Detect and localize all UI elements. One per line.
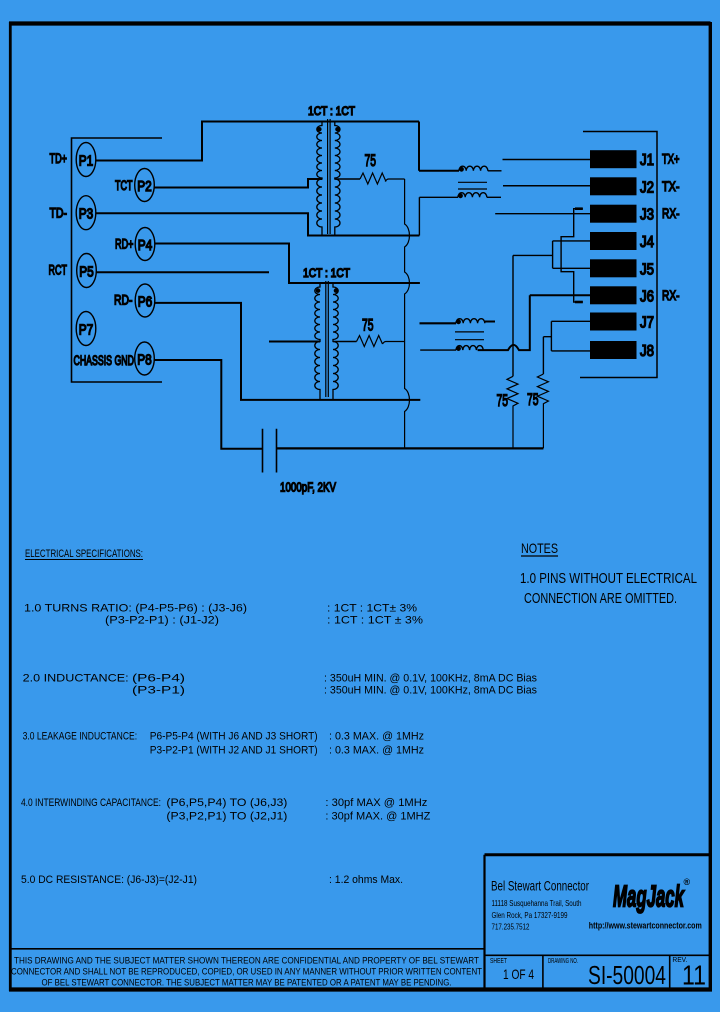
choke CH2 bottom winding (456, 346, 483, 351)
svg-text:J5: J5 (640, 261, 654, 278)
pin P8 (135, 342, 155, 375)
wire P5 (dangling at x=269) (96, 271, 269, 273)
svg-text:P6-P5-P4 (WITH J6 AND J3 SHORT: P6-P5-P4 (WITH J6 AND J3 SHORT) (150, 731, 318, 743)
svg-text:: 0.3 MAX. @ 1MHz: : 0.3 MAX. @ 1MHz (329, 745, 424, 757)
transformer T1 core (328, 119, 331, 234)
wire P4 to T2 top line (155, 244, 420, 284)
svg-text:J4: J4 (640, 234, 654, 251)
svg-text:717.235.7512: 717.235.7512 (492, 922, 530, 932)
svg-text:J6: J6 (640, 288, 654, 305)
svg-text:RX-: RX- (662, 287, 680, 303)
svg-text:OF BEL STEWART CONNECTOR. THE: OF BEL STEWART CONNECTOR. THE SUBJECT MA… (42, 978, 452, 989)
svg-text:P3: P3 (79, 206, 94, 223)
wire to J4 (553, 240, 590, 242)
svg-text:J7: J7 (640, 315, 654, 332)
choke CH1 core (458, 182, 487, 189)
svg-text:P2: P2 (137, 178, 152, 195)
svg-text:J1: J1 (640, 152, 654, 169)
wire R2 right to long vertical node (383, 342, 405, 345)
transformer T1 polarity dots (317, 127, 322, 132)
transformer T2 core (326, 281, 329, 397)
tie wire J7-J8 (550, 321, 552, 351)
svg-text:DRAWING NO.: DRAWING NO. (548, 956, 578, 965)
resistor R3 75 ohm (vertical) (507, 376, 518, 448)
wire P2 to T1 primary center tap (154, 179, 322, 188)
transformer T1 secondary winding (335, 122, 340, 236)
feed wire J4/J5 node to left resistor vertical (513, 254, 553, 256)
pin P1 (76, 143, 96, 177)
svg-text:MagJack: MagJack (613, 879, 685, 914)
pin P3 (76, 196, 96, 230)
contact J5 (590, 259, 637, 277)
wire P3 to T1 bottom line (96, 213, 420, 235)
svg-text:1000pF, 2KV: 1000pF, 2KV (280, 480, 336, 495)
wire to J3 (from x=495, dangling left) (495, 213, 590, 215)
svg-text:J3: J3 (640, 207, 654, 224)
pin P2 (135, 169, 155, 202)
transformer T2 primary winding (315, 283, 320, 400)
svg-text:1CT : 1CT: 1CT : 1CT (303, 266, 351, 280)
svg-text:THIS DRAWING AND THE SUBJECT M: THIS DRAWING AND THE SUBJECT MATTER SHOW… (14, 956, 479, 967)
crossover wire J3-area to J6-area (561, 209, 583, 302)
choke CH1 bottom input wire (419, 197, 458, 235)
choke CH2 bottom input wire (420, 349, 456, 351)
svg-text:RCT: RCT (49, 262, 68, 278)
svg-text:: 350uH MIN. @ 0.1V, 100KHz, 8: : 350uH MIN. @ 0.1V, 100KHz, 8mA DC Bias (324, 673, 537, 685)
svg-text:: 1.2 ohms Max.: : 1.2 ohms Max. (329, 874, 403, 886)
contact J3 (590, 205, 637, 223)
tie wire J4-J5 (552, 241, 554, 268)
contact J6 (590, 286, 637, 304)
svg-text:TX-: TX- (662, 178, 680, 194)
svg-text:(P3-P1): (P3-P1) (132, 685, 185, 697)
svg-text:2.0 INDUCTANCE:: 2.0 INDUCTANCE: (23, 673, 129, 685)
svg-text:Bel Stewart Connector: Bel Stewart Connector (491, 878, 589, 894)
svg-text:CONNECTION ARE OMITTED.: CONNECTION ARE OMITTED. (524, 590, 677, 607)
svg-text:: 350uH MIN. @ 0.1V, 100KHz, 8: : 350uH MIN. @ 0.1V, 100KHz, 8mA DC Bias (324, 685, 537, 697)
svg-text:P6: P6 (138, 293, 153, 310)
svg-text:5.0 DC RESISTANCE: (J6-J3)=(J2: 5.0 DC RESISTANCE: (J6-J3)=(J2-J1) (21, 874, 197, 886)
svg-text:ELECTRICAL SPECIFICATIONS:: ELECTRICAL SPECIFICATIONS: (25, 548, 143, 560)
svg-text:1.0 TURNS RATIO: (P4-P5-P6) :: 1.0 TURNS RATIO: (P4-P5-P6) : (J3-J6) (24, 603, 247, 615)
choke CH2 top winding (456, 319, 485, 324)
wire P6 to T2 bottom line (155, 303, 421, 400)
left pin bracket (72, 138, 163, 382)
resistor R2 75 ohm (T2 secondary CT) (357, 336, 383, 347)
wire P8 chassis gnd to capacitor (154, 360, 262, 449)
svg-text:: 30pf MAX. @ 1MHZ: : 30pf MAX. @ 1MHZ (325, 811, 430, 823)
svg-text:(P3-P2-P1) : (J1-J2): (P3-P2-P1) : (J1-J2) (105, 615, 219, 627)
choke CH1 bottom winding (458, 193, 487, 198)
choke CH1 output stubs (488, 170, 502, 172)
svg-text:: 0.3 MAX. @ 1MHz: : 0.3 MAX. @ 1MHz (329, 731, 424, 743)
wire to J2 (503, 185, 590, 187)
wire T2 secondary center tap to resistor R2 (333, 341, 357, 343)
svg-text:1.0 PINS WITHOUT ELECTRICAL: 1.0 PINS WITHOUT ELECTRICAL (520, 570, 697, 587)
wire T1 secondary center tap to resistor R1 (335, 178, 360, 180)
svg-text:http://www.stewartconnector.co: http://www.stewartconnector.com (589, 921, 702, 931)
svg-text:TX+: TX+ (662, 151, 680, 167)
choke CH2 core (455, 332, 484, 340)
svg-text:11: 11 (682, 960, 706, 991)
title block box (485, 853, 711, 856)
choke CH2 top input wire (420, 322, 457, 324)
wire R1 right to long vertical node (385, 179, 404, 182)
svg-text:P8: P8 (137, 351, 152, 368)
svg-text:P3-P2-P1 (WITH J2 AND J1 SHORT: P3-P2-P1 (WITH J2 AND J1 SHORT) (150, 745, 318, 757)
J connector bracket (580, 132, 657, 378)
wire to J7 (551, 320, 590, 322)
svg-text:RD-: RD- (114, 292, 133, 308)
pin P4 (135, 228, 155, 261)
svg-text:NOTES: NOTES (521, 540, 558, 556)
svg-text:TCT: TCT (115, 177, 133, 193)
wire to J1 (503, 159, 591, 161)
svg-text:1CT : 1CT: 1CT : 1CT (308, 104, 356, 118)
contact J8 (590, 341, 637, 359)
svg-text:P5: P5 (79, 263, 94, 280)
pin P7 (76, 312, 96, 346)
resistor R1 75 ohm (T1 secondary CT) (360, 173, 386, 184)
svg-text:TD+: TD+ (50, 150, 68, 166)
wire T2 primary center tap (dangling left at x=269) (269, 341, 320, 343)
svg-text:®: ® (684, 877, 691, 887)
choke CH1 top winding (459, 166, 488, 171)
bottom common node wire (cap to resistors) (277, 447, 544, 449)
vertical wire down to resistor R3 (512, 255, 514, 376)
svg-text:P4: P4 (138, 237, 153, 254)
svg-text:(P6,P5,P4) TO (J6,J3): (P6,P5,P4) TO (J6,J3) (166, 797, 287, 809)
choke CH1 top input wire (419, 122, 459, 171)
pin P5 (77, 254, 97, 288)
svg-text:1 OF 4: 1 OF 4 (503, 966, 534, 982)
svg-text:P1: P1 (79, 152, 94, 169)
svg-text:Glen Rock, Pa 17327-9199: Glen Rock, Pa 17327-9199 (492, 910, 568, 920)
svg-text:J2: J2 (640, 179, 654, 196)
svg-text:CHASSIS GND: CHASSIS GND (74, 353, 135, 368)
disclaimer box top border (10, 948, 485, 950)
svg-text:4.0 INTERWINDING CAPACITANCE:: 4.0 INTERWINDING CAPACITANCE: (21, 797, 161, 809)
svg-text:SHEET: SHEET (490, 956, 507, 965)
svg-text:75: 75 (362, 317, 374, 335)
svg-text:RD+: RD+ (115, 236, 134, 252)
contact J4 (590, 232, 637, 250)
svg-text:11118 Susquehanna Trail, South: 11118 Susquehanna Trail, South (492, 898, 582, 908)
pin P6 (135, 284, 155, 317)
contact J2 (590, 177, 637, 195)
resistor R4 75 ohm (vertical) (537, 374, 548, 448)
wire CH2 bottom output to J6 (hop over resistor vertical) (478, 295, 590, 350)
transformer T2 polarity dots (316, 288, 321, 293)
svg-text:J8: J8 (640, 343, 654, 360)
svg-text:TD-: TD- (50, 205, 68, 221)
wire P1 to T1 primary top (96, 122, 419, 161)
choke CH2 top output stub (dangling) (485, 321, 495, 323)
svg-text:: 1CT : 1CT± 3%: : 1CT : 1CT± 3% (327, 603, 417, 615)
wire to J8 (551, 350, 590, 352)
svg-text:75: 75 (497, 392, 509, 410)
svg-text:: 30pf MAX @ 1MHz: : 30pf MAX @ 1MHz (325, 797, 427, 809)
svg-text:CONNECTOR AND SHALL NOT BE REP: CONNECTOR AND SHALL NOT BE REPRODUCED, C… (11, 967, 482, 978)
svg-text:3.0 LEAKAGE INDUCTANCE:: 3.0 LEAKAGE INDUCTANCE: (23, 731, 138, 743)
svg-text:(P3,P2,P1) TO (J2,J1): (P3,P2,P1) TO (J2,J1) (166, 811, 287, 823)
svg-text:SI-50004: SI-50004 (588, 960, 666, 990)
svg-text:P7: P7 (79, 321, 94, 338)
contact J7 (590, 313, 637, 331)
capacitor C1 plates (263, 429, 277, 473)
title block divider (485, 954, 711, 956)
svg-text:: 1CT : 1CT ± 3%: : 1CT : 1CT ± 3% (327, 615, 423, 627)
svg-text:(P6-P4): (P6-P4) (132, 673, 185, 685)
transformer T1 primary winding (317, 122, 322, 236)
feed wire J7/J8 node to right resistor vertical (543, 337, 551, 374)
svg-text:75: 75 (527, 391, 539, 409)
contact J1 (590, 150, 637, 168)
svg-text:75: 75 (365, 152, 377, 170)
transformer T2 secondary winding (333, 283, 338, 400)
long vertical wire from R1/R2 node down to cap node (with hops) (405, 179, 410, 448)
wire to J5 (553, 267, 590, 269)
svg-text:RX-: RX- (662, 205, 680, 221)
